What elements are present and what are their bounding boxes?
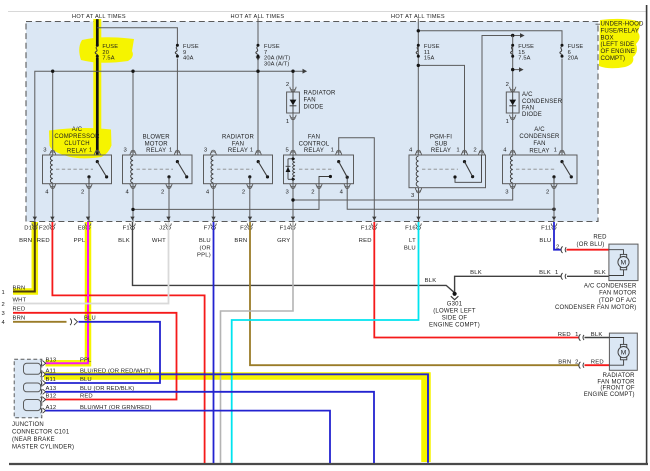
wire blower relay pin 4 to F1 (132, 184, 134, 222)
svg-text:FAN: FAN (533, 141, 545, 147)
wire fan control relay pin 4 to condenser relay pin 2 (347, 184, 554, 210)
svg-text:B11: B11 (46, 377, 56, 383)
svg-text:(OR BLU): (OR BLU) (577, 242, 605, 248)
svg-text:2: 2 (2, 302, 5, 308)
wire E8 ppl to junction B13 (46, 222, 89, 363)
svg-text:BLK: BLK (539, 270, 551, 276)
svg-text:J2: J2 (159, 226, 166, 232)
svg-text:BLOWER: BLOWER (143, 134, 171, 140)
page frame right edge (646, 5, 648, 465)
svg-text:2: 2 (81, 190, 84, 196)
svg-text:CLUTCH: CLUTCH (64, 141, 90, 147)
svg-text:CONDENSER: CONDENSER (519, 134, 560, 140)
svg-text:LT: LT (409, 238, 416, 244)
svg-text:RELAY: RELAY (529, 148, 549, 154)
wire fuse 15 output off-page arrow (513, 69, 520, 71)
svg-text:FAN: FAN (232, 141, 244, 147)
wire fan control relay pin 3 to F14 (292, 184, 294, 222)
arrow below fuse 7 (256, 57, 261, 61)
fuse 9 40A (176, 44, 179, 47)
svg-text:RELAY: RELAY (146, 148, 166, 154)
caption radiator fan motor (584, 373, 635, 398)
wire F12 red to radiator fan motor (374, 222, 579, 338)
svg-text:CONDENSER FAN MOTOR): CONDENSER FAN MOTOR) (555, 305, 637, 311)
svg-text:PPL: PPL (74, 238, 86, 244)
wire red to radiator fan motor (585, 364, 610, 366)
svg-text:BLK: BLK (425, 278, 437, 284)
node hot3 branch (417, 29, 420, 32)
wire blower relay pin 4 to fan control relay pin 2 (133, 184, 319, 210)
wire compressor relay pin 4 to F20 (52, 184, 54, 222)
svg-text:FAN: FAN (308, 134, 320, 140)
svg-text:1: 1 (575, 332, 578, 338)
wire color labels below connectors (19, 238, 551, 258)
svg-text:1: 1 (250, 148, 253, 154)
wire radiator relay pin 2 to F2 (249, 184, 251, 222)
svg-text:F11: F11 (541, 226, 551, 232)
wire radiator fan diode pin 1 to fan control relay pin 5 (292, 113, 294, 155)
wire fuse 11 branch to pgm-fi relay pin 1 (418, 65, 464, 155)
svg-text:(FRONT OF: (FRONT OF (600, 386, 634, 392)
node bus / radiator fan diode (291, 70, 294, 73)
wire F11 blu to condenser fan motor (554, 222, 561, 250)
node bus / fuse 7 (256, 70, 259, 73)
svg-text:PPL): PPL) (197, 253, 211, 259)
wire branch to fuse 9 (97, 28, 177, 44)
svg-text:RED: RED (558, 332, 571, 338)
wire radiator relay pin 4 to F7 (212, 184, 214, 222)
svg-text:A/C: A/C (522, 92, 533, 98)
svg-text:WHT: WHT (152, 238, 166, 244)
junction connector C101 caption (12, 422, 74, 451)
wire blower relay pin 2 to J2 (168, 184, 170, 222)
fuse 7 20A/30A (257, 44, 260, 47)
node fan control pin 3 junction (291, 198, 294, 201)
svg-text:BRN: BRN (13, 285, 26, 291)
svg-text:(TOP OF A/C: (TOP OF A/C (599, 298, 637, 304)
relay U4 fan control relay (284, 134, 354, 195)
svg-text:G301: G301 (447, 302, 463, 308)
svg-text:RED: RED (593, 234, 607, 240)
svg-text:4: 4 (2, 320, 6, 326)
svg-text:4: 4 (409, 148, 413, 154)
ground G301 (429, 292, 480, 329)
svg-text:FAN MOTOR: FAN MOTOR (597, 379, 635, 385)
node blower pin 4 junction (131, 208, 134, 211)
svg-text:2: 2 (575, 360, 578, 366)
svg-text:BRN: BRN (558, 360, 571, 366)
svg-text:BLU: BLU (80, 377, 92, 383)
wire D1 brn to page edge row 1 (13, 222, 35, 292)
wire A13 blu down page (46, 392, 375, 463)
svg-text:A/C: A/C (72, 127, 83, 133)
under-hood fuse/relay box outline (26, 22, 598, 222)
wire fan control relay pin 1 to F12 (339, 138, 375, 222)
svg-text:RED: RED (13, 307, 26, 313)
svg-text:BRN: BRN (13, 316, 26, 322)
svg-text:3: 3 (2, 311, 5, 317)
svg-text:BLU: BLU (84, 316, 96, 322)
svg-text:CONDENSER: CONDENSER (522, 99, 563, 105)
svg-text:F14: F14 (280, 226, 291, 232)
under-hood fuse/relay box label (596, 21, 644, 63)
wire blk to radiator fan motor (585, 337, 610, 339)
wire F20 red down page (52, 222, 204, 463)
svg-text:(LOWER LEFT: (LOWER LEFT (433, 309, 476, 315)
svg-text:(OR: (OR (199, 245, 210, 251)
fuse 11 15A (417, 44, 420, 47)
svg-text:ENGINE COMPT): ENGINE COMPT) (429, 323, 480, 329)
svg-text:RELAY: RELAY (67, 148, 87, 154)
wire hot2 feed through fuse 7 to radiator fan relay pin 1 (257, 19, 259, 45)
svg-text:F20: F20 (39, 226, 50, 232)
svg-text:4: 4 (126, 190, 130, 196)
svg-text:RELAY: RELAY (228, 148, 248, 154)
svg-text:RADIATOR: RADIATOR (304, 90, 337, 96)
wire bus drop to compressor relay pin 3 (52, 71, 54, 155)
svg-text:BLK: BLK (118, 238, 130, 244)
svg-text:RED: RED (80, 394, 93, 400)
svg-text:RADIATOR: RADIATOR (222, 134, 255, 140)
svg-text:SUB: SUB (435, 141, 448, 147)
svg-text:PGM-FI: PGM-FI (430, 134, 452, 140)
svg-text:PPL: PPL (80, 358, 92, 364)
wire F14 gry down page (221, 222, 294, 463)
highlight A11 blu/red wire (44, 372, 430, 380)
wire hot3 feed through fuse 11 (417, 19, 419, 156)
svg-text:1: 1 (89, 148, 92, 154)
svg-text:4: 4 (45, 190, 49, 196)
svg-text:2: 2 (311, 190, 314, 196)
svg-text:4: 4 (340, 190, 344, 196)
svg-text:3: 3 (286, 190, 290, 196)
svg-text:30A (A/T): 30A (A/T) (264, 62, 289, 68)
page frame bottom edge (9, 463, 648, 465)
svg-text:1: 1 (2, 290, 5, 296)
svg-text:M: M (621, 350, 627, 357)
connector on radiator motor upper wire (579, 334, 581, 341)
wire hot1 feed (thick blk, fuse 20 to compressor relay pin 1) (96, 19, 99, 45)
connector on condenser motor blk wire (561, 273, 563, 280)
highlight compressor relay label blob (49, 128, 112, 158)
svg-text:FAN MOTOR: FAN MOTOR (599, 291, 637, 297)
svg-text:M: M (621, 260, 627, 267)
svg-text:7.5A: 7.5A (518, 56, 530, 62)
node bus / compressor coil (51, 70, 54, 73)
svg-text:MOTOR: MOTOR (145, 141, 169, 147)
svg-text:FAN: FAN (304, 98, 316, 104)
highlight under-hood label blob (599, 19, 641, 68)
svg-text:F12: F12 (361, 226, 372, 232)
svg-text:2: 2 (473, 148, 476, 154)
motor M1 a/c condenser fan motor (609, 244, 638, 281)
svg-text:COMPRESSOR: COMPRESSOR (54, 134, 100, 140)
fuse 15 7.5A (511, 44, 514, 47)
svg-text:B12: B12 (46, 394, 57, 400)
svg-text:F16: F16 (405, 226, 416, 232)
svg-text:A/C CONDENSER: A/C CONDENSER (584, 284, 637, 290)
svg-text:1: 1 (331, 148, 334, 154)
svg-text:BLU: BLU (539, 238, 551, 244)
wire F2 brn to radiator fan motor (250, 222, 579, 365)
svg-text:F2: F2 (240, 226, 247, 232)
wire feed to pgm-fi relay pin 2 with off-page arrow (482, 36, 521, 156)
svg-text:4: 4 (503, 148, 507, 154)
svg-text:2: 2 (161, 190, 164, 196)
svg-text:DIODE: DIODE (304, 105, 324, 111)
svg-text:BLU: BLU (404, 245, 416, 251)
svg-text:40A: 40A (183, 56, 194, 62)
svg-text:JUNCTION: JUNCTION (12, 422, 44, 428)
highlight fuse20 label blob (79, 37, 134, 63)
highlight A11 vertical leg (421, 372, 431, 462)
wire fuse 15 vertical (512, 36, 514, 93)
node condenser pin 2 junction (552, 208, 555, 211)
arrow bus right end (303, 69, 308, 74)
svg-text:5: 5 (286, 148, 290, 154)
svg-text:BRN: BRN (234, 238, 247, 244)
svg-text:COMPT): COMPT) (601, 55, 626, 62)
svg-text:D1: D1 (24, 226, 32, 232)
svg-text:2: 2 (546, 190, 549, 196)
a/c condenser fan diode (506, 82, 563, 125)
svg-text:F1: F1 (123, 226, 130, 232)
relay U1 a/c compressor clutch relay (43, 127, 112, 196)
relay U2 blower motor relay (123, 134, 193, 195)
svg-text:3: 3 (43, 148, 47, 154)
svg-text:RADIATOR: RADIATOR (603, 373, 636, 379)
svg-text:20A: 20A (568, 56, 579, 62)
svg-text:1: 1 (554, 148, 557, 154)
highlight E8 ppl wire (46, 222, 89, 363)
connector on radiator motor lower wire (579, 362, 581, 369)
wire condenser diode pin 1 to condenser relay pin 4 (512, 113, 514, 155)
svg-text:RELAY: RELAY (431, 148, 451, 154)
svg-text:HOT AT ALL TIMES: HOT AT ALL TIMES (72, 14, 126, 20)
svg-text:ENGINE COMPT): ENGINE COMPT) (584, 392, 635, 398)
wire bus drop to blower relay pin 3 (132, 71, 134, 155)
wire red to condenser fan motor (567, 249, 610, 251)
svg-text:1: 1 (286, 119, 289, 125)
svg-text:GRY: GRY (277, 238, 290, 244)
svg-text:RELAY: RELAY (304, 148, 324, 154)
svg-text:CONNECTOR C101: CONNECTOR C101 (12, 430, 70, 436)
svg-text:3: 3 (204, 148, 208, 154)
wire F1 blk to ground G301 (133, 222, 455, 293)
svg-text:BRN: BRN (19, 238, 32, 244)
wire A11 blu/red across page (46, 374, 429, 463)
svg-text:7.5A: 7.5A (102, 56, 114, 62)
svg-text:3: 3 (124, 148, 128, 154)
wire J2 wht to page edge row 2 (13, 222, 169, 304)
node fuse 15 output (511, 68, 514, 71)
svg-text:1: 1 (506, 119, 509, 125)
svg-text:BLK: BLK (470, 270, 482, 276)
svg-text:(NEAR BRAKE: (NEAR BRAKE (12, 437, 55, 443)
connector pin labels D1 F20 E8 F1 J2 F7 F2 F14 F12 F16 F11 (24, 226, 551, 232)
svg-text:F7: F7 (204, 226, 211, 232)
svg-text:1: 1 (456, 148, 459, 154)
wire F7 blu down page (213, 222, 215, 463)
svg-text:E8: E8 (78, 226, 86, 232)
junction connector C101 (14, 359, 45, 418)
svg-text:15A: 15A (424, 56, 435, 62)
connector on condenser motor red wire (561, 246, 563, 253)
svg-text:1: 1 (555, 270, 558, 276)
svg-text:A/C: A/C (534, 127, 545, 133)
page frame top edge (8, 11, 646, 13)
svg-text:2: 2 (556, 245, 559, 251)
wire blk condenser motor to ground (567, 275, 609, 277)
fuse 6 20A (561, 44, 564, 47)
wire F16 lt blu down page (232, 222, 419, 463)
fuse 20 7.5A (96, 44, 99, 47)
svg-text:B13: B13 (46, 358, 57, 364)
wire condenser relay pin 2 to F11 (553, 184, 555, 222)
wire hot3 branch to fuse 6 feeding condenser relay pin 1 (418, 31, 562, 44)
svg-text:2: 2 (506, 82, 509, 88)
svg-text:CONTROL: CONTROL (299, 141, 330, 147)
svg-text:BLK: BLK (594, 270, 606, 276)
svg-text:RED: RED (359, 238, 372, 244)
wire compressor relay pin 2 to E8 (88, 184, 90, 222)
svg-text:2: 2 (286, 82, 289, 88)
svg-text:DIODE: DIODE (522, 112, 542, 118)
relay U6 a/c condenser fan relay (503, 127, 578, 196)
caption a/c condenser fan motor (555, 284, 637, 311)
motor M2 radiator fan motor (609, 333, 637, 370)
node feed / fuse 15 (511, 34, 514, 37)
bus from fuse 7 output (35, 71, 303, 222)
svg-text:BLU: BLU (199, 238, 211, 244)
connector exits through fuse box bottom (32, 217, 557, 230)
node bus / blower coil (131, 70, 134, 73)
svg-text:SIDE OF: SIDE OF (442, 316, 468, 322)
highlight D1 brn wire (13, 222, 35, 292)
svg-text:WHT: WHT (13, 297, 27, 303)
wire fuse 9 output to blower relay pin 1 (176, 59, 178, 156)
node fuse 11 output (417, 64, 420, 67)
wire fan control relay pin 3 to condenser relay pin 3 (293, 184, 513, 200)
relay U3 radiator fan relay (204, 134, 273, 195)
svg-text:3: 3 (505, 190, 509, 196)
svg-text:4: 4 (206, 190, 210, 196)
junction connector C101 pin labels (46, 358, 152, 411)
highlight fuse20 wire (93, 19, 101, 154)
svg-text:MASTER CYLINDER): MASTER CYLINDER) (12, 445, 74, 451)
svg-text:2: 2 (242, 190, 245, 196)
svg-text:3: 3 (411, 193, 415, 199)
relay U5 pgm-fi sub relay (409, 134, 486, 199)
wire bus drop to radiator fan diode pin 2 (292, 71, 294, 92)
svg-text:1: 1 (169, 148, 172, 154)
wire pgm-fi relay pin 3 to F16 (418, 188, 420, 222)
wire A12 blu/wht down page (46, 411, 331, 463)
svg-text:RED: RED (37, 238, 50, 244)
radiator fan diode (286, 82, 336, 125)
svg-text:FAN: FAN (522, 105, 534, 111)
